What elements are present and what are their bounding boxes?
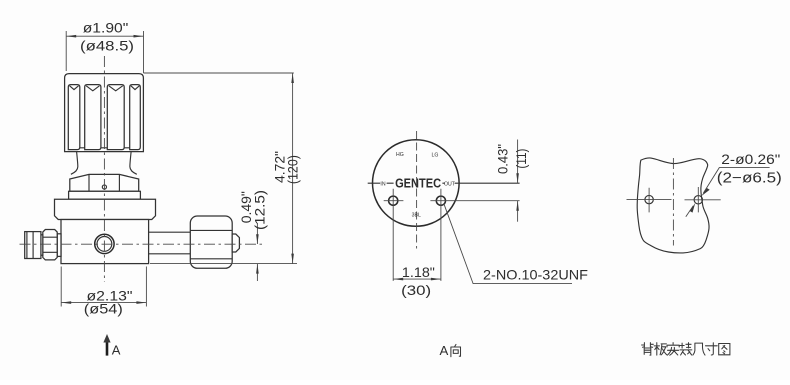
leader upper arrowhead: [701, 188, 709, 196]
dimension line Ø2.13: [61, 302, 146, 304]
left plug cylinder: [25, 232, 41, 259]
plate centerline: [672, 158, 674, 246]
svg-text:(ø54): (ø54): [84, 301, 123, 317]
extension line left: [65, 31, 67, 71]
left plate hole crosshair: [627, 188, 672, 213]
set screw hole: [102, 185, 106, 189]
hex nut face lines: [89, 175, 119, 192]
left plate hole: [645, 195, 653, 203]
0.49 dim upper segment: [256, 223, 258, 244]
horizontal centerline: [20, 243, 263, 245]
caption back-plate title: bei: [642, 343, 654, 356]
neck below knob: [71, 152, 137, 175]
glyph zhuang: [680, 343, 692, 355]
arrowhead 2.13 left: [61, 301, 71, 304]
svg-text:ø1.90": ø1.90": [83, 19, 129, 35]
svg-text:A: A: [112, 343, 121, 358]
vertical centerline: [103, 56, 105, 282]
svg-text:(12.5): (12.5): [252, 190, 268, 230]
rib 2 chevron: [86, 86, 99, 91]
svg-text:GENTEC: GENTEC: [395, 175, 441, 190]
left mounting hole: [389, 196, 398, 205]
face circle: [373, 140, 460, 227]
hex adjusting nut: [70, 174, 139, 191]
view arrow A head: [103, 334, 110, 343]
svg-text:(30): (30): [401, 282, 431, 298]
dimension line 1.18: [393, 278, 441, 280]
view arrow A shaft: [106, 339, 109, 356]
vertical centerline of face: [416, 131, 418, 249]
0.43 dim lower segment: [517, 201, 519, 222]
dimension line Ø1.90: [66, 35, 143, 37]
extension line bottom right: [145, 267, 147, 307]
knob rib strip 2: [85, 85, 101, 150]
arrowhead 1.18 right: [431, 278, 441, 281]
right plate hole crosshair: [685, 187, 721, 212]
body block: [61, 220, 149, 264]
right tube stub: [232, 234, 239, 252]
bonnet cap: [55, 199, 156, 219]
svg-text:(120): (120): [285, 155, 300, 184]
rib 4 chevron: [131, 86, 139, 90]
gauge port outer circle: [95, 234, 114, 253]
arrowhead left: [66, 35, 76, 38]
knob rib strip 1: [68, 85, 80, 150]
left fitting connector: [41, 235, 43, 255]
knob rib strip 4: [130, 85, 141, 150]
arrowhead 0.49 down: [256, 234, 259, 244]
leader upper segment: [703, 168, 769, 193]
svg-text:0.43": 0.43": [495, 144, 510, 174]
rib 3 chevron: [109, 86, 123, 91]
glyph tu: [719, 344, 730, 355]
svg-text:IN: IN: [380, 181, 385, 187]
caption glyph xiang: [451, 344, 461, 356]
glyph cun: [706, 343, 718, 355]
leader lower segment: [686, 206, 693, 217]
svg-text:1.18": 1.18": [402, 264, 435, 280]
svg-text:LG: LG: [432, 153, 439, 159]
bottom extension line right: [150, 263, 297, 265]
svg-text:HG: HG: [396, 152, 404, 158]
rib 1 chevron: [70, 86, 79, 90]
flange band: [69, 191, 141, 199]
right hole crosshair: [430, 189, 519, 281]
svg-text:OUT: OUT: [444, 182, 456, 188]
extension line bottom left: [60, 267, 62, 307]
right plate hole: [694, 196, 702, 204]
gauge port inner circle: [97, 237, 112, 252]
left inlet fitting neck: [57, 234, 61, 257]
back plate outline: [637, 158, 709, 253]
knob groove bottoms: [80, 147, 130, 149]
top extension line for 4.72: [144, 72, 294, 74]
arrowhead 0.43 up: [516, 201, 519, 211]
0.43 dim upper segment: [517, 140, 519, 184]
right outlet tube: [149, 232, 191, 254]
svg-text:A: A: [440, 343, 449, 358]
svg-text:(2−ø6.5): (2−ø6.5): [717, 171, 782, 187]
extension line right: [143, 31, 145, 73]
arrowhead 0.43 down: [516, 173, 519, 183]
right hex face lines: [190, 230, 232, 258]
dimension line 4.72: [292, 73, 294, 264]
0.49 dim lower segment: [256, 264, 258, 281]
svg-text:(ø48.5): (ø48.5): [80, 37, 134, 53]
glyph ban: [654, 343, 667, 355]
arrowhead 1.18 left: [393, 278, 403, 281]
arrowhead 4.72 bottom: [291, 254, 294, 264]
left plug edge lines: [27, 232, 33, 259]
arrowhead 0.49 up: [256, 264, 259, 274]
svg-text:(11): (11): [514, 149, 529, 169]
knob rib strip 3: [107, 85, 124, 150]
svg-text:3BL: 3BL: [412, 213, 421, 219]
arrowhead 4.72 top: [291, 73, 294, 83]
svg-text:2-ø0.26": 2-ø0.26": [721, 151, 780, 167]
right mounting hole: [436, 196, 445, 205]
knob silhouette: [65, 74, 144, 152]
glyph chi: [693, 343, 705, 355]
horizontal centerline segments: [368, 182, 520, 184]
right outlet hex nut: [190, 216, 232, 268]
arrowhead right: [134, 35, 144, 38]
left inlet hex nut: [43, 230, 57, 260]
leader lower arrowhead: [690, 203, 696, 213]
left hole crosshair: [384, 189, 404, 281]
arrowhead 2.13 right: [136, 301, 146, 304]
leader line to thread note: [444, 204, 572, 284]
glyph an: [667, 343, 679, 356]
svg-text:2-NO.10-32UNF: 2-NO.10-32UNF: [483, 267, 588, 283]
left hex face lines: [43, 237, 57, 252]
